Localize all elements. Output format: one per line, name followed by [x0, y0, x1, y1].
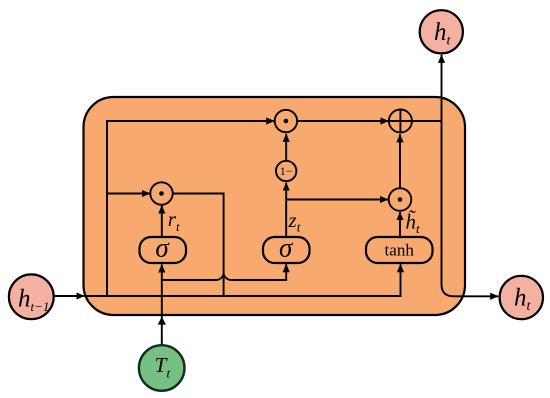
- wire: product output right to adder: [297, 120, 388, 122]
- wire: output up to top h(t): [441, 55, 443, 121]
- GRU cell body (outer rounded rectangle): [84, 97, 466, 315]
- svg-text:tanh: tanh: [385, 241, 415, 260]
- adder node: [389, 110, 412, 133]
- wire: branch to sigma z with hop over crossing line: [162, 264, 286, 280]
- wire: bottom bus from left border to tanh input: [85, 264, 401, 296]
- wire: sigma r output up to product: [161, 206, 163, 238]
- reset product node: [150, 182, 172, 204]
- wire: tanh output up to update product: [399, 212, 401, 237]
- arrowhead: T input entering cell boundary: [158, 317, 166, 325]
- wire: adder output right to junction: [412, 120, 442, 122]
- svg-text:σ: σ: [279, 233, 294, 263]
- wire: 1-minus output up to elementwise product: [285, 134, 287, 161]
- svg-text:1−: 1−: [280, 164, 293, 178]
- wire: output down and right to h(t): [442, 121, 499, 296]
- wire: sigma z output up to 1-minus node: [285, 183, 287, 237]
- node h(t) top: [420, 10, 463, 53]
- node h(t-1): [9, 274, 54, 319]
- 1-minus node: [276, 161, 296, 181]
- wire: h(t-1) into cell: [54, 295, 85, 297]
- update product node z*h~: [389, 188, 412, 211]
- elementwise product node (1-z)*h: [275, 110, 297, 132]
- wire: state loop left vertical and top horizontal into elementwise product: [107, 121, 274, 296]
- wire: h(t-1) tap to reset product: [107, 193, 150, 195]
- wire: update product up to adder: [399, 134, 401, 188]
- wire: z branch right to update product: [286, 199, 388, 201]
- wire: reset product output down to bottom bus: [173, 194, 224, 297]
- node h(t) right: [500, 276, 543, 319]
- tanh box: [366, 237, 433, 263]
- svg-text:σ: σ: [155, 233, 170, 263]
- wire: T input vertical up into sigma r: [161, 264, 163, 345]
- sigma box r gate: [140, 237, 187, 263]
- node T input: [139, 345, 185, 391]
- sigma box z gate: [263, 237, 310, 263]
